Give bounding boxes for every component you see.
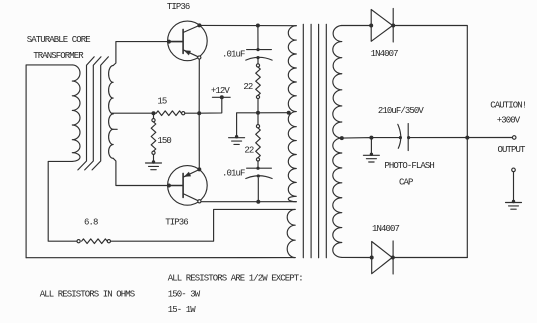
wire: 150 bottom ring to ground: [153, 154, 155, 161]
wire: D2 cathode to output vertical rail: [393, 257, 467, 259]
svg-text:1N4007: 1N4007: [372, 224, 400, 234]
Q2 collector lead: [183, 194, 199, 202]
node: C2 top plate dot: [256, 167, 259, 170]
node: D2 anode junction: [370, 256, 374, 260]
node: Q1 base junction: [167, 40, 171, 44]
diode D2 cathode bar: [392, 241, 394, 274]
node: Q1 collector junction: [197, 23, 201, 27]
svg-text:22: 22: [243, 82, 253, 92]
resistor 22 lower (vertical): [256, 128, 261, 158]
wire: T1 primary top lead, left outer vertical, to bottom rail: [26, 65, 72, 258]
wire: T1 primary bottom lead down to 6.8 resistor rail: [48, 161, 78, 241]
node: D1 anode junction: [369, 24, 373, 28]
svg-text:TRANSFORMER: TRANSFORMER: [33, 51, 84, 61]
node: negative output terminal ring: [512, 168, 516, 172]
svg-text:+300V: +300V: [497, 116, 521, 126]
capacitor C2 .01uF curved bottom plate: [246, 176, 272, 179]
svg-text:CAP: CAP: [399, 177, 413, 187]
wire: 22 resistor bottom to mid junction: [257, 97, 259, 128]
node: C3 right plate dot: [407, 136, 410, 139]
node: snubber bottom junction: [256, 200, 260, 204]
Q1 collector lead: [183, 25, 199, 32]
T1 core line 3: [92, 57, 108, 170]
node: C1 top plate dot: [256, 48, 259, 51]
T1 core line 1: [78, 57, 94, 170]
node: 15 resistor right terminal ring: [182, 112, 185, 115]
node: secondary tap ground junction: [369, 136, 373, 140]
capacitor C3 photoflash curved left plate: [398, 124, 401, 148]
ground: below negative output terminal: [506, 200, 522, 209]
wire: top rail from Q1 collector to T2 primary top: [199, 24, 296, 26]
wire: mid junction row, ground corner to T2 primary center tap: [237, 113, 289, 137]
transformer T2 primary winding upper section: [288, 26, 296, 202]
transformer T2 primary winding lower section: [287, 209, 295, 257]
node: Q2 emitter junction: [197, 167, 201, 171]
capacitor C1 .01uF top plate: [247, 49, 272, 51]
node: D2 cathode junction: [391, 256, 395, 260]
Q1 base lead and bar: [169, 29, 183, 53]
T2 core line 1: [302, 24, 304, 257]
wire: Q2 collector to T2 primary bottom: [199, 201, 296, 203]
node: Q1 emitter terminal ring: [198, 56, 201, 59]
svg-text:.01uF: .01uF: [222, 169, 245, 179]
node: +12V terminal dot: [220, 95, 224, 99]
resistor 6.8 (horizontal): [82, 239, 108, 244]
wire: 15/150 junction down to 150 top ring: [153, 113, 155, 118]
svg-text:1N4007: 1N4007: [371, 49, 399, 59]
node: 22 lower top terminal ring: [256, 125, 259, 128]
resistor 150 (vertical): [151, 122, 156, 151]
svg-text:15- 1W: 15- 1W: [168, 305, 197, 315]
svg-text:6.8: 6.8: [84, 218, 98, 228]
transformer T1 primary winding: [72, 65, 80, 161]
svg-text:OUTPUT: OUTPUT: [498, 145, 527, 155]
wire: +12V terminal bar: [212, 96, 230, 98]
transformer T2 secondary winding: [333, 26, 342, 258]
node: Q2 base junction: [167, 184, 171, 188]
capacitor C1 .01uF curved bottom plate: [246, 57, 272, 60]
wire: photoflash cap right plate to output terminal circle: [408, 137, 512, 139]
Q1 emitter lead: [183, 50, 199, 58]
resistor 15 (horizontal): [156, 111, 181, 116]
svg-text:ALL RESISTORS ARE 1/2W EXCEPT:: ALL RESISTORS ARE 1/2W EXCEPT:: [168, 274, 303, 284]
node: 22 upper top terminal ring: [256, 64, 259, 67]
wire: T2 secondary top to diode D1 anode: [342, 25, 371, 27]
node: C2 bottom plate dot: [257, 174, 260, 177]
diode D1 1N4007 triangle: [371, 10, 392, 42]
svg-text:CAUTION!: CAUTION!: [490, 100, 526, 110]
transistor Q2 TIP36 circle: [168, 166, 208, 206]
wire: D1 cathode to output vertical rail: [393, 26, 467, 258]
wire: C1 bottom plate to 22 resistor top: [257, 58, 259, 65]
svg-text:150- 3W: 150- 3W: [168, 289, 201, 299]
Q2 emitter arrow: [184, 172, 190, 177]
wire: 6.8 resistor right lead and step up to T2 lower primary top: [109, 209, 295, 241]
T2 core line 4: [325, 24, 327, 257]
node: snubber mid junction: [256, 111, 260, 115]
svg-text:TIP36: TIP36: [167, 2, 190, 12]
node: 6.8 resistor left terminal ring: [77, 240, 80, 243]
wire: 22 resistor B bottom to cap C2: [257, 158, 259, 169]
wire: T2 secondary center tap row to output terminal: [342, 138, 400, 154]
Q2 base lead and bar: [169, 173, 183, 197]
node: emitter rail +12V junction: [197, 111, 201, 115]
node: 22 upper bottom terminal ring: [256, 95, 259, 98]
wire: T2 secondary bottom to diode D2 anode: [342, 256, 372, 258]
node: 150 resistor bottom terminal ring: [152, 151, 155, 154]
svg-text:+12V: +12V: [211, 86, 231, 96]
node: +300V output terminal ring: [512, 136, 516, 140]
wire: 15 resistor right lead to +12V rail junction: [181, 112, 199, 114]
wire: stub at T1 secondary lower cusp: [113, 128, 117, 130]
wire: T1 secondary top to Q1 base: [113, 42, 169, 66]
wire: T1 secondary center tap to 15 resistor junction: [112, 112, 154, 115]
svg-text:150: 150: [157, 136, 171, 146]
svg-text:SATURABLE CORE: SATURABLE CORE: [27, 35, 91, 45]
capacitor C2 .01uF top plate: [247, 167, 272, 169]
wire: bottom rail to T2 lower primary winding bottom: [26, 257, 295, 259]
T1 core line 2: [85, 57, 101, 170]
wire: +12V terminal stub down and left to emitter rail: [199, 97, 222, 113]
T2 core line 2: [310, 24, 312, 257]
svg-text:.01uF: .01uF: [222, 50, 245, 60]
ground: below 150 resistor: [146, 160, 162, 169]
resistor 22 upper (vertical): [256, 67, 261, 95]
svg-text:PHOTO-FLASH: PHOTO-FLASH: [384, 161, 434, 171]
ground: below T2 secondary tap: [363, 153, 379, 162]
wire: emitter rail Q1 to Q2 through +12V junction: [198, 58, 200, 170]
svg-text:ALL RESISTORS IN OHMS: ALL RESISTORS IN OHMS: [40, 289, 135, 299]
node: 150 resistor top terminal ring: [152, 119, 155, 122]
node: output rail junction: [465, 136, 469, 140]
T2 core line 3: [318, 24, 320, 257]
wire: snubber chain top from rail to cap C1: [257, 26, 259, 50]
wire: T1 secondary bottom to Q2 base: [113, 158, 169, 185]
diode D1 cathode bar: [392, 9, 394, 43]
transformer T1 secondary winding: [109, 66, 114, 159]
node: T2 secondary center tap: [340, 136, 344, 140]
node: 15/150 junction: [152, 111, 156, 115]
ground: below snubber mid junction: [229, 135, 245, 144]
transistor Q1 TIP36 circle: [168, 21, 208, 61]
node: 6.8 resistor right terminal ring: [107, 240, 110, 243]
svg-text:TIP36: TIP36: [165, 218, 188, 228]
node: D1 cathode junction: [391, 24, 395, 28]
capacitor C3 photoflash right plate: [407, 124, 409, 151]
svg-text:210uF/350V: 210uF/350V: [378, 106, 425, 116]
Q1 emitter arrow: [184, 51, 190, 56]
svg-text:22: 22: [244, 145, 254, 155]
node: 22 lower bottom terminal ring: [256, 158, 259, 161]
node: C3 left plate dot: [399, 136, 402, 139]
diode D2 1N4007 triangle: [372, 242, 393, 274]
node: snubber chain top junction: [256, 24, 260, 28]
wire: ground lead below negative output terminal: [513, 172, 515, 202]
node: T2 primary center tap: [287, 111, 291, 115]
svg-text:15: 15: [157, 97, 167, 107]
node: Q2 collector terminal ring: [198, 200, 201, 203]
wire: C2 bottom to Q2 collector wire junction: [257, 178, 259, 202]
wire: junction to 15 resistor left lead: [154, 112, 157, 114]
node: C1 bottom plate dot: [256, 56, 259, 59]
Q2 emitter lead: [183, 170, 199, 178]
